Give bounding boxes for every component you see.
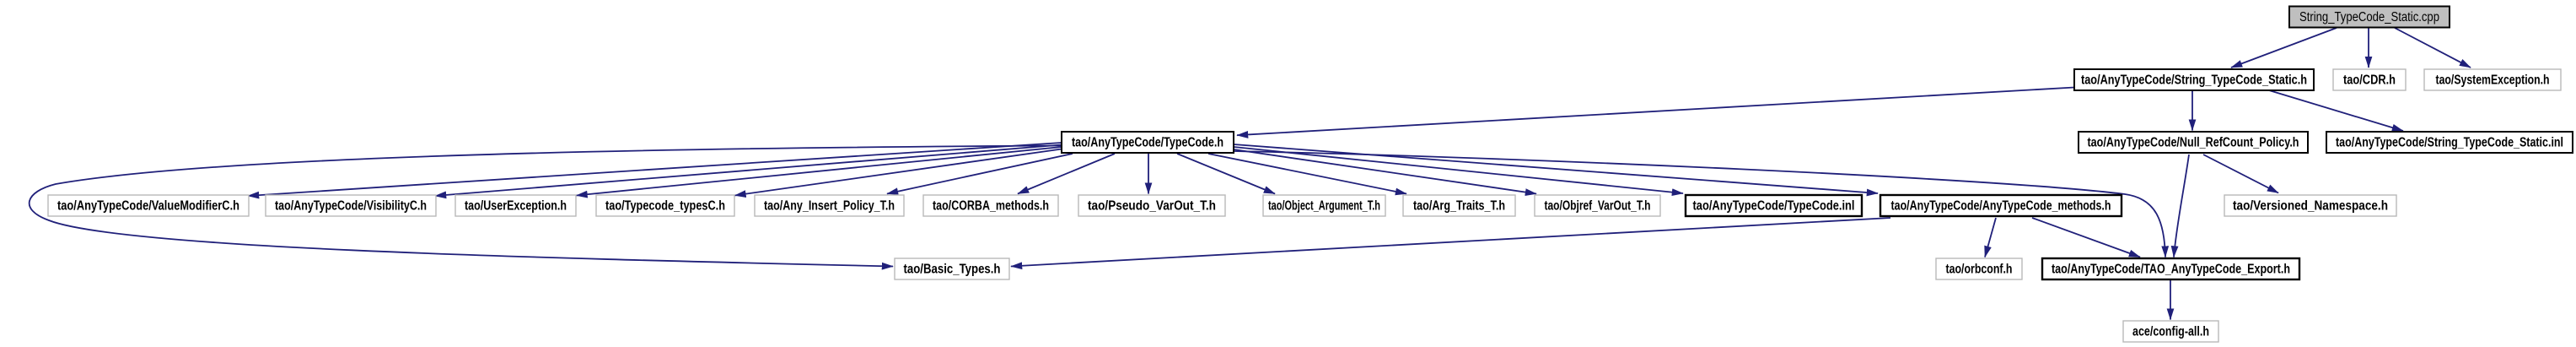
node tao/Typecode_typesC.h [596, 195, 734, 216]
svg-text:tao/SystemException.h: tao/SystemException.h [2436, 73, 2550, 88]
node tao/AnyTypeCode/Null_RefCount_Policy.h [2079, 132, 2308, 153]
svg-text:tao/UserException.h: tao/UserException.h [465, 199, 567, 214]
edge TypeCode.h -> Basic_Types.h (left loop) [30, 146, 1062, 267]
edge String_TypeCode_Static.cpp -> CDR.h [2368, 28, 2369, 68]
node tao/AnyTypeCode/AnyTypeCode_methods.h [1880, 195, 2122, 216]
edge Null_RefCount_Policy.h -> TAO_AnyTypeCode_Export.h [2174, 155, 2189, 258]
edge TAO_AnyTypeCode_Export.h -> ace/config-all.h [2170, 280, 2171, 320]
node tao/AnyTypeCode/String_TypeCode_Static.h [2074, 69, 2314, 90]
edge AnyTypeCode_methods.h -> orbconf.h [1985, 218, 1996, 258]
svg-text:tao/AnyTypeCode/VisibilityC.h: tao/AnyTypeCode/VisibilityC.h [275, 199, 427, 214]
node tao/Pseudo_VarOut_T.h [1078, 195, 1225, 216]
svg-text:tao/AnyTypeCode/ValueModifierC: tao/AnyTypeCode/ValueModifierC.h [57, 199, 239, 214]
node tao/UserException.h [455, 195, 576, 216]
edge String_TypeCode_Static.h -> Null_RefCount_Policy.h [2191, 90, 2193, 131]
svg-text:tao/AnyTypeCode/String_TypeCod: tao/AnyTypeCode/String_TypeCode_Static.h [2081, 73, 2307, 88]
svg-text:String_TypeCode_Static.cpp: String_TypeCode_Static.cpp [2299, 10, 2439, 24]
edge AnyTypeCode_methods.h -> Basic_Types.h [1011, 218, 1890, 267]
node tao/CORBA_methods.h [923, 195, 1058, 216]
node tao/Object_Argument_T.h [1263, 195, 1385, 216]
svg-text:tao/Pseudo_VarOut_T.h: tao/Pseudo_VarOut_T.h [1088, 199, 1216, 214]
svg-text:tao/Any_Insert_Policy_T.h: tao/Any_Insert_Policy_T.h [764, 199, 895, 214]
svg-text:tao/AnyTypeCode/TypeCode.h: tao/AnyTypeCode/TypeCode.h [1072, 136, 1223, 150]
edge TypeCode.h -> AnyTypeCode_methods.h [1234, 144, 1878, 193]
node tao/CDR.h [2333, 69, 2406, 90]
node ace/config-all.h [2123, 321, 2218, 342]
edge AnyTypeCode_methods.h -> TAO_AnyTypeCode_Export.h [2032, 218, 2140, 258]
node tao/Any_Insert_Policy_T.h [755, 195, 904, 216]
node tao/AnyTypeCode/TAO_AnyTypeCode_Export.h [2042, 258, 2299, 279]
svg-text:tao/Basic_Types.h: tao/Basic_Types.h [904, 263, 1001, 277]
svg-text:tao/orbconf.h: tao/orbconf.h [1946, 263, 2013, 277]
node tao/Objref_VarOut_T.h [1535, 195, 1660, 216]
svg-text:tao/AnyTypeCode/AnyTypeCode_me: tao/AnyTypeCode/AnyTypeCode_methods.h [1891, 199, 2111, 214]
node tao/Arg_Traits_T.h [1403, 195, 1515, 216]
edge TypeCode.h -> Object_Argument_T.h [1177, 154, 1275, 194]
svg-text:tao/Typecode_typesC.h: tao/Typecode_typesC.h [605, 199, 725, 214]
edge TypeCode.h -> TAO_AnyTypeCode_Export.h (curve) [1234, 151, 2165, 258]
node tao/AnyTypeCode/TypeCode.inl [1686, 195, 1862, 216]
edge TypeCode.h -> Any_Insert_Policy_T.h [887, 154, 1073, 194]
svg-text:tao/Objref_VarOut_T.h: tao/Objref_VarOut_T.h [1545, 199, 1651, 214]
node tao/AnyTypeCode/String_TypeCode_Static.inl [2326, 132, 2573, 153]
svg-text:tao/AnyTypeCode/Null_RefCount_: tao/AnyTypeCode/Null_RefCount_Policy.h [2088, 136, 2299, 150]
edge TypeCode.h -> TypeCode.inl [1234, 147, 1683, 193]
node tao/SystemException.h [2424, 69, 2561, 90]
svg-text:tao/CORBA_methods.h: tao/CORBA_methods.h [933, 199, 1049, 214]
edge TypeCode.h -> Typecode_typesC.h [735, 149, 1062, 196]
svg-text:tao/AnyTypeCode/TypeCode.inl: tao/AnyTypeCode/TypeCode.inl [1693, 199, 1855, 214]
edge String_TypeCode_Static.cpp -> SystemException.h [2395, 28, 2471, 68]
edge TypeCode.h -> UserException.h [577, 147, 1062, 196]
svg-text:tao/Versioned_Namespace.h: tao/Versioned_Namespace.h [2233, 199, 2388, 214]
node String_TypeCode_Static.cpp [2289, 7, 2450, 28]
svg-text:tao/Object_Argument_T.h: tao/Object_Argument_T.h [1268, 199, 1380, 214]
edge TypeCode.h -> CORBA_methods.h [1018, 154, 1115, 194]
node tao/AnyTypeCode/TypeCode.h [1062, 132, 1234, 153]
edge TypeCode.h -> Arg_Traits_T.h [1208, 154, 1406, 194]
node tao/AnyTypeCode/VisibilityC.h [266, 195, 436, 216]
edge Null_RefCount_Policy.h -> Versioned_Namespace.h [2203, 155, 2278, 193]
node tao/Basic_Types.h [895, 258, 1009, 279]
svg-text:tao/Arg_Traits_T.h: tao/Arg_Traits_T.h [1413, 199, 1505, 214]
svg-text:ace/config-all.h: ace/config-all.h [2132, 325, 2209, 339]
svg-text:tao/CDR.h: tao/CDR.h [2343, 73, 2396, 88]
node tao/orbconf.h [1936, 258, 2022, 279]
edge TypeCode.h -> ValueModifierC.h [248, 143, 1062, 196]
svg-text:tao/AnyTypeCode/TAO_AnyTypeCod: tao/AnyTypeCode/TAO_AnyTypeCode_Export.h [2052, 263, 2290, 277]
node tao/Versioned_Namespace.h [2224, 195, 2396, 216]
edge TypeCode.h -> Objref_VarOut_T.h [1234, 149, 1536, 194]
edge TypeCode.h -> VisibilityC.h [435, 145, 1062, 197]
node tao/AnyTypeCode/ValueModifierC.h [48, 195, 249, 216]
edge String_TypeCode_Static.h -> String_TypeCode_Static.inl [2269, 90, 2403, 131]
edge String_TypeCode_Static.cpp -> String_TypeCode_Static.h [2231, 28, 2337, 68]
edge TypeCode.h -> Pseudo_VarOut_T.h [1148, 154, 1149, 194]
edge String_TypeCode_Static.h -> TypeCode.h [1237, 88, 2074, 136]
svg-text:tao/AnyTypeCode/String_TypeCod: tao/AnyTypeCode/String_TypeCode_Static.i… [2336, 136, 2563, 150]
